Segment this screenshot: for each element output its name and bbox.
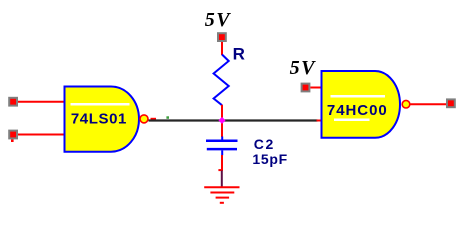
wire left input 2: [18, 134, 65, 136]
svg-text:74LS01: 74LS01: [71, 110, 127, 127]
wire 5V square to U2 upper input: [310, 87, 321, 89]
ground stem (dark): [221, 171, 223, 187]
NAND gate U2 74HC00 body: [322, 71, 401, 138]
wire U2 output: [411, 103, 447, 105]
ground pin tick: [218, 169, 221, 171]
svg-text:5V: 5V: [290, 57, 317, 79]
svg-text:5V: 5V: [205, 9, 232, 31]
U2 output bubble: [402, 100, 410, 108]
wire left input 1: [18, 101, 65, 103]
svg-text:74HC00: 74HC00: [327, 102, 388, 119]
terminal 5V top square: [217, 32, 227, 42]
svg-text:15pF: 15pF: [252, 151, 287, 167]
ground symbol bars: [204, 187, 239, 203]
junction node (magenta diamond): [218, 117, 225, 124]
svg-text:R: R: [233, 44, 245, 63]
NAND gate U1 74LS01 body: [65, 87, 140, 152]
terminal T2 (left bottom input square): [8, 130, 18, 142]
U1 output bubble: [140, 115, 148, 123]
wire U1 output to U2 input (net): [149, 119, 318, 121]
resistor R zigzag: [214, 55, 229, 106]
wire 5V to resistor: [221, 42, 223, 55]
terminal 5V right square: [301, 83, 311, 93]
green probe dot: [166, 116, 169, 119]
U2 lower input pin stub: [317, 120, 322, 122]
wire capacitor to ground: [221, 155, 223, 171]
terminal T1 (left top input square): [8, 97, 18, 107]
U1 output pin stub: [151, 118, 157, 120]
wire resistor to node: [221, 105, 223, 137]
capacitor C2: [206, 137, 238, 156]
terminal output square: [446, 98, 456, 108]
svg-text:C2: C2: [254, 136, 275, 152]
